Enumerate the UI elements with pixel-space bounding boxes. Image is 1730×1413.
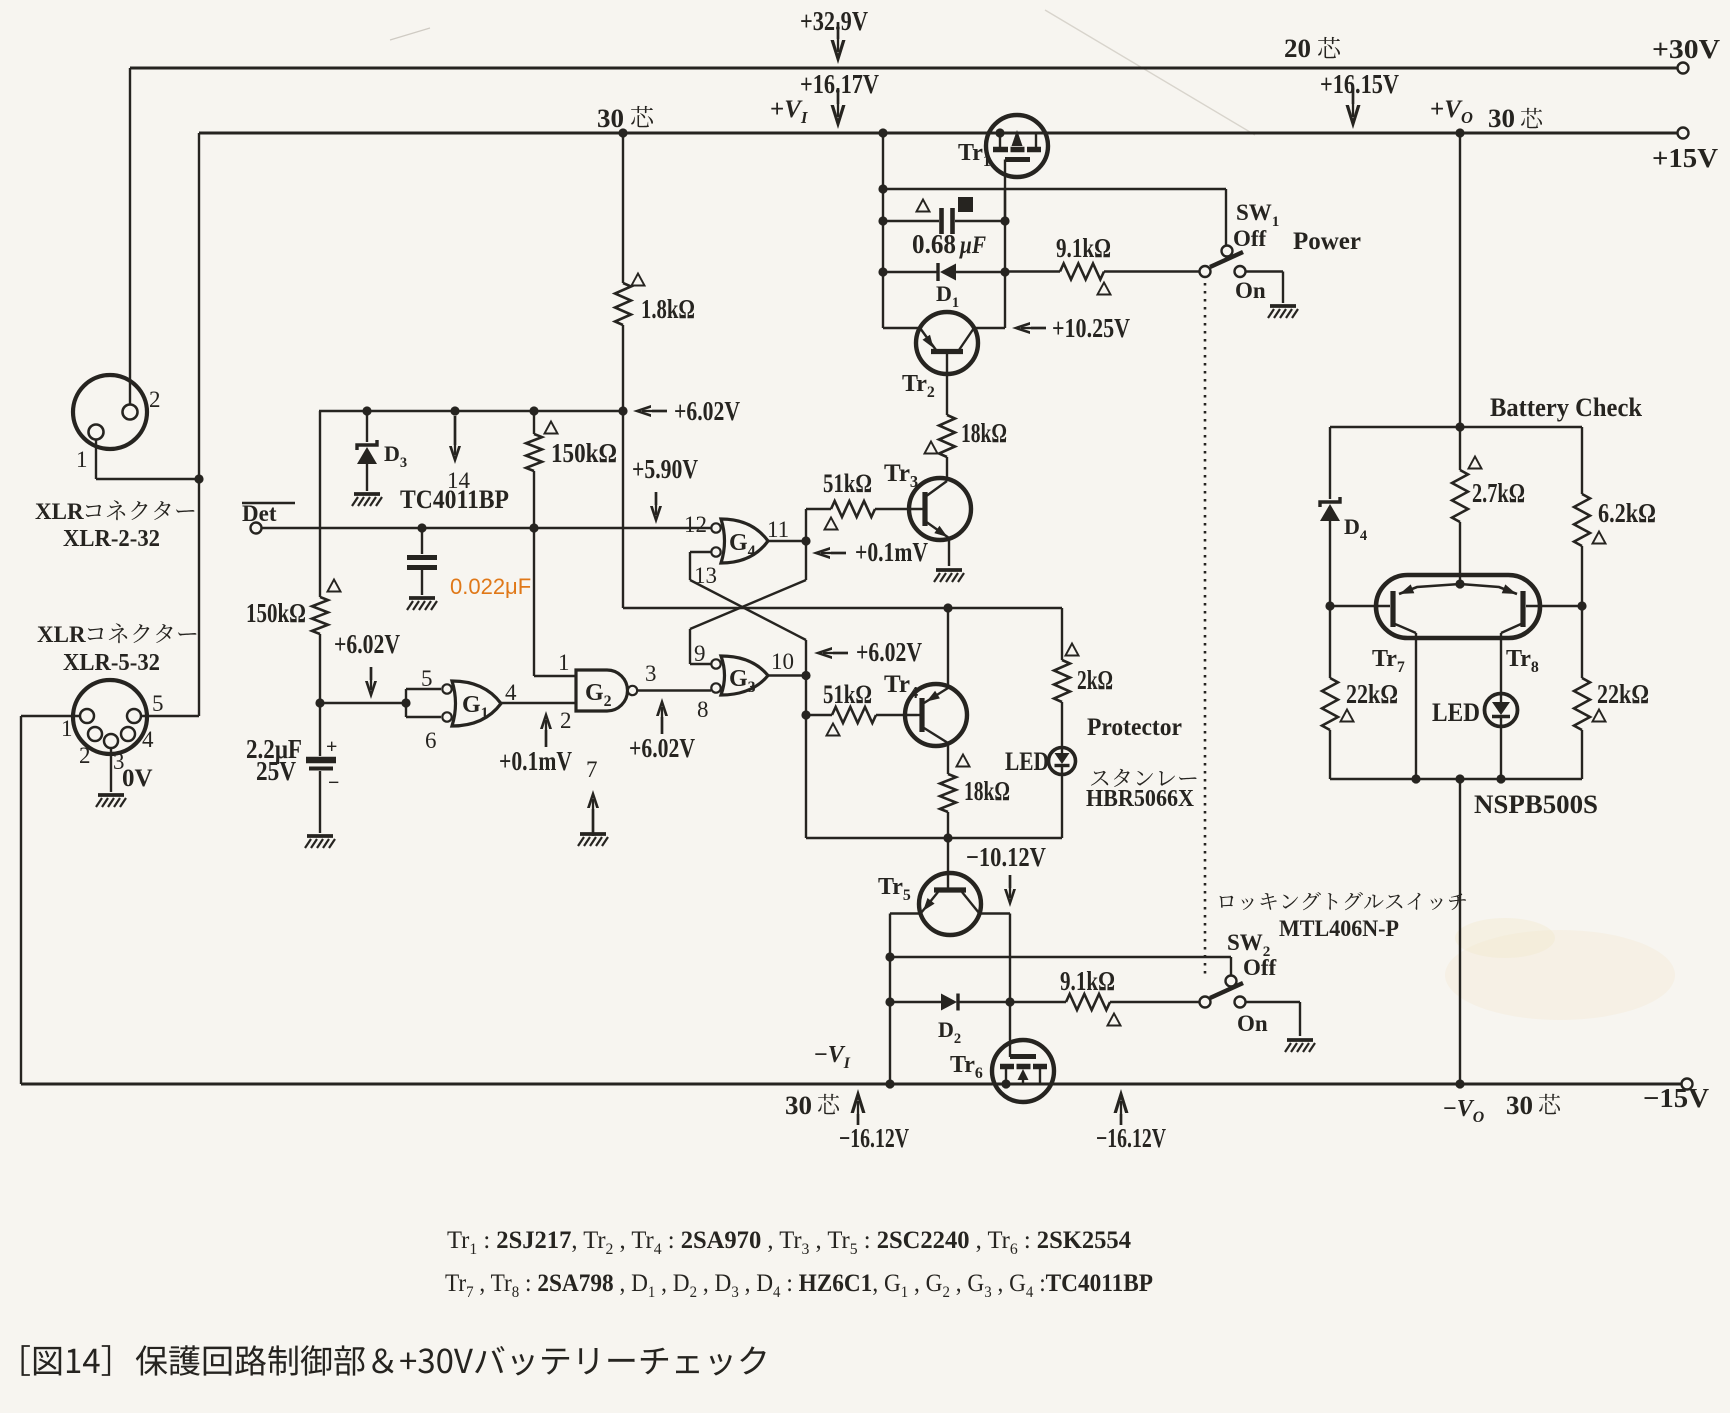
svg-text:51kΩ: 51kΩ <box>823 680 872 709</box>
label 30-core bottom right <box>1506 1091 1560 1120</box>
connector XLR-2-32 pin2 <box>123 405 138 420</box>
label Tr1 <box>958 140 991 170</box>
svg-text:Off: Off <box>1233 226 1267 251</box>
label G1 <box>462 692 489 722</box>
label 51kohm lower <box>823 680 872 709</box>
marker triangle 51k upper <box>824 518 837 530</box>
label D4 <box>1344 514 1367 544</box>
label SW2 Off <box>1243 955 1277 980</box>
label SW1 On <box>1235 278 1266 303</box>
label 18kohm lower <box>964 776 1010 806</box>
marker triangle 2k <box>1065 644 1078 656</box>
svg-text:2.7kΩ: 2.7kΩ <box>1472 478 1525 508</box>
resistor 9.1kohm SW1 <box>1005 264 1199 280</box>
svg-text:Det: Det <box>242 501 277 526</box>
svg-text:9: 9 <box>694 641 706 666</box>
marker triangle 9.1k SW2 <box>1107 1014 1120 1026</box>
switch SW2 off contact <box>1226 976 1237 987</box>
wire +6.02V arrow G2out <box>656 698 668 734</box>
switch SW1 lever <box>1210 252 1243 267</box>
label XLR-2-32 <box>63 526 160 552</box>
label 30-core right top <box>1488 104 1542 133</box>
switch SW1 off contact <box>1222 246 1233 257</box>
label -15V <box>1643 1083 1710 1113</box>
wire G1 output <box>501 702 576 704</box>
node det-cap junction <box>417 523 426 532</box>
resistor 18kohm upper <box>939 373 955 481</box>
wire protector bottom line <box>806 837 1062 839</box>
wire G4 output <box>768 540 806 542</box>
svg-text:18kΩ: 18kΩ <box>964 776 1010 806</box>
wire +V_I rail (30-core) <box>142 133 1680 716</box>
label 9.1kohm SW1 <box>1056 233 1111 263</box>
label 51kohm upper <box>823 469 872 498</box>
capacitor 0.68uF <box>883 208 1005 234</box>
gate G1 (TC4011BP) <box>442 681 501 726</box>
label Tr2 <box>902 371 935 401</box>
marker triangle 18k upper <box>924 442 937 454</box>
ground XLR-5-32 pin3 <box>96 795 126 807</box>
wire battery box top <box>1330 426 1582 428</box>
svg-text:6.2kΩ: 6.2kΩ <box>1598 498 1656 528</box>
svg-text:+16.17V: +16.17V <box>800 69 879 99</box>
wire Tr5 emitter to left drop <box>885 914 921 1089</box>
diode D2 <box>890 994 1010 1011</box>
ground SW1 <box>1268 306 1298 318</box>
wire +16.17V arrow <box>831 88 846 129</box>
svg-text:XLR: XLR <box>35 499 84 524</box>
svg-text:+6.02V: +6.02V <box>334 629 400 659</box>
node det junction 150k <box>529 523 538 532</box>
wire Tr1 source drop <box>878 128 887 328</box>
label 22kohm left <box>1346 679 1398 709</box>
wire -10.12V arrow <box>1004 875 1016 907</box>
marker triangle 22k left <box>1340 710 1353 722</box>
wire G1 input pair box <box>320 689 441 717</box>
resistor 2.7kohm <box>1452 427 1468 584</box>
wire battery check return <box>1455 779 1464 1089</box>
gate G2 (TC4011BP) <box>576 670 637 711</box>
ground SW2 <box>1285 1040 1315 1052</box>
wire +0.1mV arrow G1out <box>540 711 552 747</box>
node Tr4-Tr5 junction <box>943 833 952 842</box>
wire SW gang dotted link <box>1204 283 1207 977</box>
capacitor 2.2uF 25V <box>306 703 336 833</box>
svg-text:Battery Check: Battery Check <box>1490 393 1643 422</box>
ground Tr3 <box>934 570 964 582</box>
label Tr5 <box>878 874 911 904</box>
label pin 14 <box>447 468 471 493</box>
transistor Tr1 (2SJ217 P-MOSFET) <box>986 115 1048 221</box>
label SW2 <box>1227 930 1270 960</box>
svg-text:−16.12V: −16.12V <box>1096 1123 1166 1153</box>
svg-text:Off: Off <box>1243 955 1277 980</box>
svg-text:9.1kΩ: 9.1kΩ <box>1060 966 1115 996</box>
marker triangle 0.68uF <box>916 200 929 212</box>
resistor 150kohm right <box>526 411 542 528</box>
label 6.2kohm <box>1598 498 1656 528</box>
wire +30V rail (20-core) <box>130 68 1680 404</box>
svg-text:30: 30 <box>597 104 624 133</box>
switch SW1 on contact <box>1235 266 1246 277</box>
svg-text:XLR-5-32: XLR-5-32 <box>63 650 160 676</box>
wire +6.02V arrow top <box>633 405 667 417</box>
label 0.68uF <box>912 229 986 259</box>
label 2.7kohm <box>1472 478 1525 508</box>
wire Tr5 collector to gate drop <box>979 914 1015 1058</box>
switch SW1 common <box>1200 266 1211 277</box>
svg-text:5: 5 <box>421 666 433 691</box>
svg-text:+0.1mV: +0.1mV <box>855 537 928 567</box>
svg-text:6: 6 <box>425 728 437 753</box>
label 0V <box>122 765 153 792</box>
wire Det line <box>261 527 711 529</box>
svg-text:−: − <box>328 772 339 794</box>
svg-text:2: 2 <box>149 387 161 412</box>
wire G4 pin13 to G3 output <box>690 552 806 640</box>
svg-text:+15V: +15V <box>1652 143 1719 173</box>
svg-text:−15V: −15V <box>1643 1083 1710 1113</box>
svg-text:4: 4 <box>505 680 517 705</box>
svg-text:51kΩ: 51kΩ <box>823 469 872 498</box>
wire G3 pin9 to G4 output <box>690 580 806 664</box>
label +V_I <box>770 96 808 127</box>
marker triangle 1.8k <box>631 274 644 286</box>
wire +6.02V arrow left <box>365 667 377 699</box>
label D1 <box>936 281 959 311</box>
label +V_O <box>1430 96 1473 127</box>
label Tr8 <box>1506 646 1539 676</box>
label XLR connector 2 <box>37 622 196 647</box>
marker triangle 9.1k SW1 <box>1097 283 1110 295</box>
label parts list line 2 <box>445 1270 1153 1301</box>
svg-text:+: + <box>326 736 337 758</box>
label figure caption <box>21 1345 765 1376</box>
wire pin7 VSS arrow <box>587 790 599 836</box>
diode D3 zener <box>357 411 377 491</box>
svg-text:+30V: +30V <box>1652 34 1721 64</box>
wire G3 output node riser <box>801 640 810 838</box>
svg-text:30: 30 <box>1488 104 1515 133</box>
wire 150k to G2 pin1 <box>534 528 576 676</box>
svg-text:2: 2 <box>560 708 572 733</box>
label Protector <box>1087 714 1182 741</box>
svg-text:1: 1 <box>558 650 570 675</box>
node +15V terminal <box>1678 128 1689 139</box>
label NSPB500S <box>1474 790 1598 819</box>
resistor 1.8kohm branch <box>615 133 631 411</box>
svg-text:1: 1 <box>76 447 88 472</box>
switch SW2 lever <box>1210 983 1243 998</box>
transistor Tr6 (2SK2554 N-MOSFET) <box>992 1040 1054 1102</box>
svg-text:μF: μF <box>958 232 986 259</box>
svg-text:HBR5066X: HBR5066X <box>1086 786 1195 812</box>
label XLR connector 1 <box>35 499 194 524</box>
wire pin14 VDD arrow <box>449 416 461 464</box>
label SW1 Off <box>1233 226 1267 251</box>
label XLR-2-32 pin numbers <box>76 387 161 472</box>
label +10.25V <box>1052 313 1130 343</box>
wire XLR-2-32 pin1 to rail drop <box>96 440 199 479</box>
label MTL406N-P <box>1279 916 1399 941</box>
label +6.02V right <box>856 637 922 667</box>
transistor pair Tr7/Tr8 (2SA798) package <box>1376 575 1540 638</box>
svg-text:Tr1 : 2SJ217, Tr2 , Tr4 : 2SA9: Tr1 : 2SJ217, Tr2 , Tr4 : 2SA970 , Tr3 ,… <box>447 1227 1131 1258</box>
svg-text:XLR-2-32: XLR-2-32 <box>63 526 160 552</box>
label G3 pins <box>694 641 794 674</box>
label pin 7 <box>586 757 598 782</box>
svg-text:+16.15V: +16.15V <box>1320 69 1399 99</box>
wire -16.12V arrow left <box>851 1089 866 1125</box>
label -16.12V mid <box>1096 1123 1166 1153</box>
svg-text:20: 20 <box>1284 34 1311 63</box>
node D4 base junction <box>1325 601 1334 610</box>
label 9.1kohm SW2 <box>1060 966 1115 996</box>
label 2.2uF <box>246 734 339 794</box>
svg-text:2kΩ: 2kΩ <box>1077 665 1113 695</box>
label Det <box>242 501 295 526</box>
ground D3 <box>352 494 382 506</box>
transistor Tr7 (2SA798 PNP) <box>1330 584 1460 779</box>
switch SW2 on contact <box>1235 997 1246 1008</box>
wire Tr1 gate column <box>1000 189 1009 328</box>
svg-text:On: On <box>1237 1011 1268 1036</box>
wire +10.25V arrow <box>1012 322 1046 334</box>
svg-text:22kΩ: 22kΩ <box>1346 679 1398 709</box>
node G1 branch junction <box>315 698 324 707</box>
wire SW2 feed line <box>890 957 1231 976</box>
resistor 22kohm left <box>1322 606 1338 779</box>
label 20-core <box>1284 34 1340 63</box>
transistor Tr8 (2SA798 PNP) <box>1460 584 1582 694</box>
svg-text:1: 1 <box>61 716 73 741</box>
label 150kohm left <box>246 598 306 628</box>
label +0.1mV bottom <box>499 746 572 776</box>
svg-text:−10.12V: −10.12V <box>966 842 1046 872</box>
label G4 <box>729 530 756 560</box>
wire SW1 feed line <box>883 189 1226 245</box>
connector XLR-5-32 pins <box>80 709 141 748</box>
label TC4011BP <box>400 485 509 514</box>
label 18kohm upper <box>961 418 1007 448</box>
label G4 pins <box>684 512 789 588</box>
svg-text:LED: LED <box>1432 698 1480 727</box>
diode D4 zener <box>1320 427 1340 606</box>
node Tr7/8 emitter junction <box>1455 579 1464 588</box>
wire latch to protector line <box>623 411 1062 613</box>
label 30-core left <box>597 104 653 133</box>
svg-text:+32.9V: +32.9V <box>800 6 868 36</box>
label LED battery <box>1432 698 1480 727</box>
resistor 2kohm <box>1054 608 1070 748</box>
svg-text:0V: 0V <box>122 765 153 792</box>
svg-text:25V: 25V <box>256 756 296 786</box>
svg-text:+6.02V: +6.02V <box>629 733 695 763</box>
wire +5.90V arrow <box>650 492 662 524</box>
svg-text:+6.02V: +6.02V <box>856 637 922 667</box>
label +16.15V <box>1320 69 1399 99</box>
resistor 6.2kohm <box>1574 427 1590 606</box>
gate G3 (TC4011BP) <box>711 656 768 695</box>
label -V_O <box>1443 1096 1484 1126</box>
label 0.022uF <box>450 574 531 599</box>
connector XLR-2-32 pin1 <box>89 425 104 440</box>
svg-text:11: 11 <box>767 517 789 542</box>
label +30V <box>1652 34 1721 64</box>
label Tr7 <box>1372 646 1405 676</box>
label -V_I <box>814 1042 851 1072</box>
node top line junctions <box>362 406 627 415</box>
svg-text:MTL406N-P: MTL406N-P <box>1279 916 1399 941</box>
svg-text:12: 12 <box>684 512 707 537</box>
wire SW2 on to ground <box>1246 1002 1300 1036</box>
svg-text:30: 30 <box>785 1091 812 1120</box>
ground 0.022uF <box>407 598 437 610</box>
resistor 18kohm lower <box>940 774 956 889</box>
label pin 8 <box>697 697 709 722</box>
marker square 0.68uF <box>958 197 973 212</box>
wire gate supply top line <box>319 410 623 412</box>
wire -V rail (30-core) <box>21 1083 1685 1086</box>
label LED protector <box>1005 747 1049 776</box>
label +6.02V left <box>334 629 400 659</box>
label 1.8kohm <box>641 294 695 324</box>
svg-text:3: 3 <box>645 661 657 686</box>
label parts list line 1 <box>447 1227 1131 1258</box>
led battery check LED <box>1485 694 1518 780</box>
node -15V terminal <box>1682 1079 1693 1090</box>
switch SW2 common <box>1200 997 1211 1008</box>
label -10.12V <box>966 842 1046 872</box>
resistor 150kohm left <box>312 411 328 703</box>
label +6.02V mid <box>629 733 695 763</box>
label D2 <box>938 1017 961 1047</box>
svg-text:On: On <box>1235 278 1266 303</box>
wire battery check feed <box>1455 128 1464 431</box>
svg-text:4: 4 <box>142 727 154 752</box>
svg-text:5: 5 <box>152 691 164 716</box>
capacitor 0.022uF <box>407 528 437 595</box>
label 150kohm right <box>551 438 617 468</box>
wire +16.15V arrow <box>1346 88 1361 129</box>
connector XLR-5-32 body <box>73 680 147 754</box>
transistor Tr2 (2SA970 PNP) <box>883 312 1005 374</box>
svg-text:0.022μF: 0.022μF <box>450 574 531 599</box>
svg-text:+5.90V: +5.90V <box>632 454 698 484</box>
ground pin7 VSS <box>578 834 608 846</box>
marker triangle 51k lower <box>826 724 839 736</box>
wire G2 output <box>638 689 712 691</box>
svg-text:LED: LED <box>1005 747 1049 776</box>
label +15V <box>1652 143 1719 173</box>
svg-text:8: 8 <box>697 697 709 722</box>
transistor Tr3 (2SC2240 NPN) <box>909 478 971 566</box>
svg-text:1.8kΩ: 1.8kΩ <box>641 294 695 324</box>
svg-text:0.68: 0.68 <box>912 229 956 259</box>
node +30V terminal <box>1678 63 1689 74</box>
label G2 pins <box>558 650 657 733</box>
svg-text:18kΩ: 18kΩ <box>961 418 1007 448</box>
wire G4 output node riser <box>801 509 810 580</box>
connector XLR-2-32 body <box>73 375 147 449</box>
resistor 22kohm right <box>1574 606 1590 779</box>
svg-text:−16.12V: −16.12V <box>839 1123 909 1153</box>
node 6.2k base junction <box>1577 601 1586 610</box>
label D3 <box>384 441 407 471</box>
wire SW1 on to ground <box>1246 272 1283 304</box>
label G1 pins <box>421 666 517 753</box>
svg-text:30: 30 <box>1506 1091 1533 1120</box>
label +16.17V <box>800 69 879 99</box>
wire LED to bottom line <box>1061 774 1063 838</box>
label locking toggle switch <box>1219 892 1466 910</box>
wire battery box bottom <box>1330 774 1582 783</box>
svg-text:2: 2 <box>79 743 91 768</box>
led protector LED <box>1049 748 1076 775</box>
transistor Tr5 (2SC2240 NPN) <box>919 873 981 935</box>
label Tr4 <box>884 671 918 702</box>
label Stanley <box>1091 769 1197 787</box>
diode D1 <box>883 263 1005 281</box>
wire +6.02V arrow G3out <box>814 647 848 659</box>
transistor Tr4 (2SA970 PNP) <box>905 608 967 774</box>
marker triangle 150k left <box>327 580 340 592</box>
label +6.02V top <box>674 396 740 426</box>
marker triangle 150k right <box>544 422 557 434</box>
resistor 9.1kohm SW2 <box>1010 994 1199 1010</box>
gate G4 (TC4011BP) <box>711 519 768 563</box>
wire -16.12V arrow mid <box>1114 1089 1129 1125</box>
svg-text:Tr7 , Tr8 : 2SA798 , D1 , D2 ,: Tr7 , Tr8 : 2SA798 , D1 , D2 , D3 , D4 :… <box>445 1270 1153 1301</box>
wire +0.1mV arrow G4out <box>812 547 846 559</box>
label G3 <box>729 666 756 696</box>
marker triangle 6.2k <box>1592 532 1605 544</box>
resistor 51kohm lower <box>806 707 917 723</box>
svg-text:10: 10 <box>771 649 794 674</box>
wire +32.9V feed arrow <box>831 22 846 64</box>
svg-text:Power: Power <box>1293 228 1361 255</box>
svg-text:+0.1mV: +0.1mV <box>499 746 572 776</box>
label XLR-5-32 pin numbers <box>61 691 164 774</box>
svg-text:+10.25V: +10.25V <box>1052 313 1130 343</box>
label +0.1mV right <box>855 537 928 567</box>
svg-text:22kΩ: 22kΩ <box>1597 679 1649 709</box>
svg-text:9.1kΩ: 9.1kΩ <box>1056 233 1111 263</box>
label +32.9V <box>800 6 868 36</box>
wire G3 output <box>768 674 806 676</box>
label 30-core bottom left <box>785 1091 839 1120</box>
marker triangle 2.7k <box>1468 457 1481 469</box>
label Tr6 <box>950 1052 983 1082</box>
label +5.90V <box>632 454 698 484</box>
label 2kohm <box>1077 665 1113 695</box>
label SW1 <box>1236 200 1279 230</box>
ground 2.2uF <box>305 836 335 848</box>
marker triangle 22k right <box>1592 710 1605 722</box>
label HBR5066X <box>1086 786 1195 812</box>
marker triangle Tr4 collector <box>956 755 969 767</box>
svg-text:Protector: Protector <box>1087 714 1182 741</box>
node junction pin1-drop <box>194 474 203 483</box>
svg-text:XLR: XLR <box>37 622 86 647</box>
label 22kohm right <box>1597 679 1649 709</box>
svg-text:7: 7 <box>586 757 598 782</box>
node Det terminal <box>251 523 262 534</box>
svg-text:150kΩ: 150kΩ <box>551 438 617 468</box>
svg-text:TC4011BP: TC4011BP <box>400 485 509 514</box>
label G2 <box>585 680 612 710</box>
label SW2 On <box>1237 1011 1268 1036</box>
